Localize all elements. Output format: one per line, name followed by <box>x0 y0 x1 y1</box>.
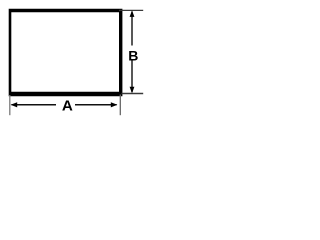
rectangle outline <box>9 9 123 96</box>
dimension line A right segment <box>75 104 117 106</box>
arrowhead B up <box>130 10 135 17</box>
arrowhead A right <box>111 102 118 107</box>
extension tick top-right <box>119 9 143 11</box>
dimension line B upper segment <box>131 12 133 46</box>
dimension line B lower segment <box>131 61 133 93</box>
arrowhead A left <box>11 102 18 107</box>
extension tick below bottom-right <box>119 95 121 116</box>
extension tick below bottom-left <box>9 95 11 115</box>
extension tick bottom-right horizontal <box>122 93 144 95</box>
arrowhead B down <box>130 87 135 94</box>
dimension line A left segment <box>12 104 57 106</box>
svg-text:B: B <box>128 47 138 63</box>
svg-text:A: A <box>62 97 73 114</box>
